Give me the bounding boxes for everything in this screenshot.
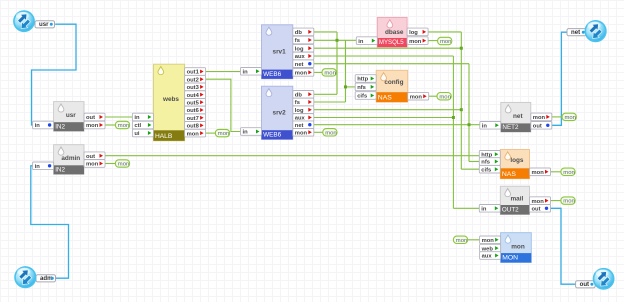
svg-text:OUT2: OUT2 bbox=[502, 207, 519, 214]
wire webs.mon to mon probe bbox=[206, 132, 216, 134]
svg-text:config: config bbox=[384, 79, 403, 86]
wire dbase.log to log bus bbox=[428, 31, 461, 33]
tag net (output) bbox=[567, 29, 587, 36]
mon probe for config.mon bbox=[437, 93, 451, 101]
svg-text:cifs: cifs bbox=[481, 167, 491, 173]
wire aux bus to mail.in bbox=[453, 207, 479, 209]
port config.http bbox=[355, 75, 376, 83]
mon probe feeding mon.mon bbox=[453, 236, 467, 244]
svg-text:dbase: dbase bbox=[385, 29, 404, 36]
wire srv1.log to log bus bbox=[314, 47, 462, 49]
port srv2.in bbox=[241, 128, 262, 136]
svg-text:net: net bbox=[295, 123, 304, 129]
port srv1.aux bbox=[293, 52, 314, 60]
port srv2.log bbox=[293, 106, 314, 114]
svg-text:out8: out8 bbox=[187, 124, 200, 130]
svg-text:log: log bbox=[295, 108, 304, 114]
svg-text:in: in bbox=[134, 115, 140, 121]
svg-text:mon: mon bbox=[295, 71, 308, 77]
svg-text:aux: aux bbox=[482, 254, 493, 260]
wire log bus vertical bbox=[460, 32, 462, 169]
svg-text:fs: fs bbox=[295, 100, 300, 106]
svg-text:usr: usr bbox=[66, 112, 76, 119]
tag usr (input) bbox=[35, 21, 55, 29]
port logs.http bbox=[479, 151, 500, 159]
node mon (MON block) bbox=[501, 233, 532, 263]
svg-text:aux: aux bbox=[295, 54, 306, 60]
svg-text:mon: mon bbox=[563, 199, 574, 205]
svg-text:mon: mon bbox=[439, 94, 450, 100]
port webs.out4 bbox=[185, 91, 206, 99]
svg-text:usr: usr bbox=[39, 21, 49, 28]
port srv2.aux bbox=[293, 114, 314, 122]
port mon.mon bbox=[480, 236, 501, 244]
svg-text:mon: mon bbox=[295, 131, 308, 137]
wire adm-tag to admin.in (blue) bbox=[31, 166, 69, 278]
port srv1.db bbox=[293, 28, 314, 36]
wire dbase.mon to mon probe bbox=[428, 40, 438, 42]
svg-text:out1: out1 bbox=[187, 70, 200, 76]
wire config.mon to mon probe bbox=[429, 95, 437, 97]
svg-text:mail: mail bbox=[511, 196, 524, 203]
junction fs bus / config.nfs bbox=[344, 85, 347, 88]
svg-text:nfs: nfs bbox=[357, 85, 366, 91]
wire mail.mon to mon probe bbox=[550, 200, 561, 202]
wire net bus vertical bbox=[468, 64, 470, 162]
wire srv1.db to db bus bbox=[314, 31, 337, 33]
wire net bus to logs.nfs bbox=[469, 161, 479, 163]
svg-text:IN2: IN2 bbox=[55, 123, 65, 130]
svg-text:net: net bbox=[513, 113, 523, 120]
wire srv2.fs to fs bus bbox=[314, 101, 346, 103]
svg-text:out6: out6 bbox=[187, 108, 200, 114]
svg-text:NAS: NAS bbox=[378, 94, 392, 101]
wire srv2.mon to mon probe bbox=[314, 131, 323, 133]
port admin.in bbox=[33, 162, 54, 170]
svg-text:NAS: NAS bbox=[502, 171, 516, 178]
wire srv2.log to log bus bbox=[314, 109, 462, 111]
wire webs.out1 to srv1.in bbox=[206, 71, 241, 73]
junction srv1.log / log bus bbox=[460, 47, 463, 50]
port srv1.fs bbox=[293, 36, 314, 44]
svg-text:mon: mon bbox=[187, 131, 200, 137]
svg-text:fs: fs bbox=[295, 38, 300, 44]
svg-text:mon: mon bbox=[565, 115, 576, 121]
node webs (HALB block) bbox=[153, 64, 184, 141]
wire srv2.db to db bus bbox=[314, 93, 337, 95]
icon net sphere bbox=[585, 20, 607, 42]
node srv2 (WEB6 block) bbox=[262, 86, 293, 139]
svg-text:out: out bbox=[533, 124, 542, 130]
svg-text:mon: mon bbox=[86, 162, 99, 168]
port net.mon bbox=[531, 113, 552, 121]
port srv2.fs bbox=[293, 98, 314, 106]
node logs (NAS block) bbox=[500, 150, 529, 179]
svg-text:net: net bbox=[295, 62, 304, 68]
svg-text:WEB6: WEB6 bbox=[263, 132, 282, 139]
svg-text:in: in bbox=[358, 39, 364, 45]
node config (NAS block) bbox=[376, 70, 408, 102]
port usr.out bbox=[84, 113, 105, 121]
wire net.mon to mon probe bbox=[552, 116, 563, 118]
svg-text:in: in bbox=[35, 164, 41, 170]
svg-text:out2: out2 bbox=[187, 77, 199, 83]
svg-text:out7: out7 bbox=[187, 116, 199, 122]
wire webs.out2 to srv2.in bbox=[206, 79, 241, 131]
svg-text:db: db bbox=[295, 30, 303, 36]
wire usr.out to webs.in bbox=[105, 116, 132, 118]
svg-text:mon: mon bbox=[325, 130, 336, 136]
port config.nfs bbox=[355, 83, 376, 91]
svg-text:MON: MON bbox=[502, 255, 518, 262]
svg-text:in: in bbox=[243, 70, 249, 76]
svg-text:mon: mon bbox=[409, 39, 422, 45]
svg-text:log: log bbox=[295, 46, 304, 52]
port usr.in bbox=[33, 121, 54, 129]
junction srv2.aux / aux bus bbox=[452, 116, 455, 119]
svg-text:in: in bbox=[35, 123, 41, 129]
svg-text:out4: out4 bbox=[187, 93, 200, 99]
wire srv1.net to net bus bbox=[314, 63, 469, 65]
wire net-tag to net.out (blue) bbox=[552, 32, 568, 125]
svg-text:http: http bbox=[357, 77, 368, 83]
junction db bus / dbase.in line bbox=[336, 39, 339, 42]
svg-text:mon: mon bbox=[456, 238, 467, 244]
svg-text:out3: out3 bbox=[187, 85, 200, 91]
wire out-tag to mail.out (blue) bbox=[550, 208, 575, 284]
port mon.aux bbox=[480, 252, 501, 260]
svg-text:mon: mon bbox=[118, 162, 129, 168]
port dbase.log bbox=[407, 28, 428, 36]
svg-text:log: log bbox=[409, 30, 418, 36]
svg-text:mon: mon bbox=[410, 94, 423, 100]
port srv1.net bbox=[293, 60, 314, 68]
node admin (IN2 block) bbox=[54, 145, 84, 175]
port webs.in bbox=[132, 113, 153, 121]
svg-text:logs: logs bbox=[510, 157, 524, 164]
port mail.mon bbox=[530, 197, 551, 205]
svg-text:WEB6: WEB6 bbox=[263, 71, 282, 78]
port mon.web bbox=[480, 244, 501, 252]
svg-text:out: out bbox=[86, 154, 95, 160]
node usr (IN2 block) bbox=[54, 102, 84, 132]
svg-text:out5: out5 bbox=[187, 101, 200, 107]
wire srv1.aux to aux bus bbox=[314, 55, 454, 57]
port srv2.db bbox=[293, 91, 314, 99]
svg-text:mon: mon bbox=[511, 244, 525, 251]
mon probe for dbase.mon bbox=[438, 37, 452, 45]
port srv2.mon bbox=[293, 129, 314, 137]
svg-text:mon: mon bbox=[324, 71, 335, 77]
wire mon probe to mon.mon input bbox=[468, 239, 480, 241]
wire srv1.mon to mon probe bbox=[314, 71, 322, 73]
svg-text:net: net bbox=[571, 29, 580, 36]
port webs.ctl bbox=[132, 121, 153, 129]
port srv1.mon bbox=[293, 69, 314, 77]
svg-text:webs: webs bbox=[162, 96, 179, 103]
port mail.in bbox=[479, 205, 500, 213]
port config.cifs bbox=[355, 92, 376, 100]
svg-text:in: in bbox=[481, 207, 487, 213]
svg-text:srv1: srv1 bbox=[273, 48, 287, 55]
svg-text:mon: mon bbox=[482, 238, 495, 244]
svg-text:mon: mon bbox=[563, 170, 574, 176]
svg-text:ctl: ctl bbox=[134, 123, 141, 129]
node dbase (MYSQL5 block) bbox=[377, 17, 407, 47]
svg-text:NET2: NET2 bbox=[502, 124, 519, 131]
port srv2.net bbox=[293, 121, 314, 129]
port admin.mon bbox=[84, 160, 105, 168]
port webs.out8 bbox=[185, 122, 206, 130]
wire fs bus to config.nfs bbox=[346, 86, 356, 88]
port logs.cifs bbox=[479, 165, 500, 173]
wire srv2.net to net.in bbox=[314, 124, 480, 126]
svg-text:db: db bbox=[295, 93, 303, 99]
port config.mon bbox=[408, 92, 429, 100]
svg-text:admin: admin bbox=[61, 155, 80, 162]
svg-text:mon: mon bbox=[533, 115, 546, 121]
tag out (output) bbox=[576, 281, 596, 289]
svg-text:IN2: IN2 bbox=[55, 167, 65, 174]
svg-text:mon: mon bbox=[86, 123, 99, 129]
svg-text:in: in bbox=[243, 130, 249, 136]
svg-text:in: in bbox=[482, 124, 488, 130]
mon probe for admin.mon bbox=[115, 160, 129, 168]
port logs.mon bbox=[530, 168, 551, 176]
mon probe for srv2.mon bbox=[323, 129, 337, 137]
port webs.out7 bbox=[185, 114, 206, 122]
svg-text:out: out bbox=[532, 207, 541, 213]
svg-text:HALB: HALB bbox=[155, 133, 173, 140]
port net.out bbox=[531, 122, 552, 130]
node net (NET2 block) bbox=[501, 102, 531, 132]
mon probe for webs.mon bbox=[215, 129, 229, 137]
svg-text:mon: mon bbox=[440, 39, 451, 45]
port mail.out bbox=[530, 205, 551, 213]
mon probe for mail.mon bbox=[561, 197, 575, 205]
wire usr.mon to mon probe bbox=[105, 124, 115, 126]
svg-text:ui: ui bbox=[134, 131, 140, 137]
svg-text:mon: mon bbox=[532, 199, 545, 205]
svg-text:srv2: srv2 bbox=[273, 110, 287, 117]
svg-text:cifs: cifs bbox=[357, 94, 367, 100]
wire db bus vertical bbox=[336, 32, 338, 94]
port webs.out6 bbox=[185, 106, 206, 114]
port dbase.mon bbox=[407, 37, 428, 45]
svg-text:mon: mon bbox=[118, 123, 129, 129]
port webs.mon bbox=[185, 129, 206, 137]
port webs.ui bbox=[132, 129, 153, 137]
wire srv1.fs to dbase.in bbox=[314, 39, 357, 41]
wire log bus to logs.cifs bbox=[461, 168, 479, 170]
mon probe for net.mon bbox=[562, 113, 576, 121]
tag adm (input) bbox=[36, 275, 56, 283]
port srv1.log bbox=[293, 44, 314, 52]
node srv1 (WEB6 block) bbox=[262, 25, 293, 79]
wire logs.mon to mon probe bbox=[550, 171, 561, 173]
svg-text:out: out bbox=[580, 281, 589, 288]
wire srv2.aux to aux bus bbox=[314, 117, 454, 119]
wire admin.out to logs.http bbox=[105, 155, 479, 157]
node mail (OUT2 block) bbox=[500, 186, 529, 214]
port webs.out3 bbox=[185, 83, 206, 91]
wire admin.mon to mon probe bbox=[105, 163, 115, 165]
port admin.out bbox=[84, 152, 105, 160]
port logs.nfs bbox=[479, 158, 500, 166]
mon probe for logs.mon bbox=[561, 168, 575, 176]
mon probe for srv1.mon bbox=[322, 69, 336, 77]
port net.in bbox=[480, 122, 501, 130]
port usr.mon bbox=[84, 121, 105, 129]
junction srv2.log / log bus bbox=[460, 108, 463, 111]
port webs.out5 bbox=[185, 99, 206, 107]
svg-text:mon: mon bbox=[532, 170, 545, 176]
svg-text:MYSQL5: MYSQL5 bbox=[379, 39, 404, 46]
icon adm sphere bbox=[14, 266, 36, 288]
port webs.out2 bbox=[185, 75, 206, 83]
wire usr-tag to usr.in (blue) bbox=[32, 24, 77, 125]
port dbase.in bbox=[356, 37, 377, 45]
svg-text:out: out bbox=[86, 115, 95, 121]
icon out sphere bbox=[593, 268, 614, 289]
port srv1.in bbox=[241, 68, 262, 76]
svg-text:mon: mon bbox=[218, 131, 229, 137]
wire aux bus vertical bbox=[452, 56, 454, 208]
junction srv2.net / net bus bbox=[468, 123, 471, 126]
mon probe for usr.mon bbox=[115, 121, 129, 129]
svg-text:nfs: nfs bbox=[481, 160, 490, 166]
port webs.out1 bbox=[185, 68, 206, 76]
icon usr sphere bbox=[13, 11, 34, 32]
wire fs bus vertical bbox=[345, 40, 347, 102]
